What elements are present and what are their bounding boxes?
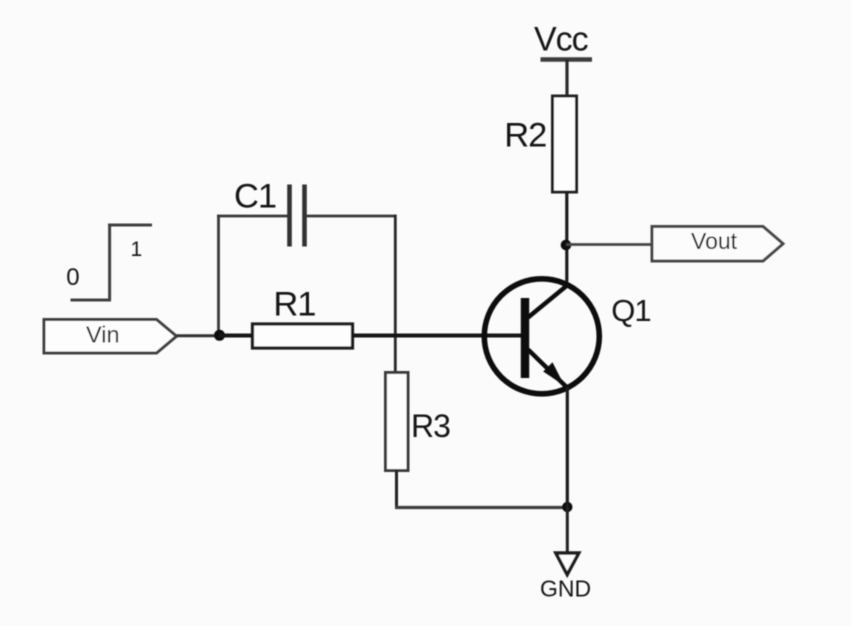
- wire capacitor loop top right: [306, 215, 396, 218]
- transistor Q1: [484, 279, 599, 394]
- svg-text:Q1: Q1: [611, 293, 650, 328]
- wire collector to Vout: [566, 243, 652, 246]
- capacitor C1 left plate: [287, 185, 292, 247]
- node input junction dot: [214, 330, 225, 341]
- ground symbol: [556, 553, 579, 575]
- node collector junction dot: [561, 240, 572, 251]
- wire R2 to collector: [565, 192, 568, 287]
- svg-text:Vin: Vin: [86, 322, 120, 348]
- step source symbol: [71, 225, 153, 300]
- wire capacitor loop right vertical down to R3: [394, 215, 397, 373]
- flag Vout: [652, 227, 783, 262]
- resistor R1: [253, 324, 353, 348]
- svg-text:1: 1: [131, 238, 143, 261]
- svg-text:R2: R2: [504, 116, 546, 154]
- node emitter junction dot: [562, 502, 572, 512]
- power rail Vcc bar: [541, 57, 593, 62]
- wire capacitor loop top left: [217, 215, 288, 218]
- wire Vin to node: [177, 334, 223, 337]
- resistor R3: [386, 373, 409, 471]
- capacitor C1 right plate: [302, 185, 307, 247]
- resistor R2: [553, 96, 577, 192]
- wire Vcc to R2: [565, 60, 568, 98]
- svg-text:C1: C1: [234, 177, 276, 215]
- svg-text:R1: R1: [273, 285, 315, 323]
- wire rail to ground: [566, 507, 569, 553]
- wire capacitor loop left vertical: [217, 215, 220, 335]
- wire R3 to bottom rail: [395, 471, 398, 510]
- wire emitter to rail: [566, 387, 569, 507]
- wire R1 to base: [353, 334, 522, 338]
- wire node to R1: [219, 334, 253, 338]
- wire bottom rail: [395, 506, 568, 509]
- flag Vin: [44, 320, 177, 354]
- svg-text:Vcc: Vcc: [534, 20, 589, 58]
- svg-text:R3: R3: [411, 408, 450, 444]
- svg-text:0: 0: [66, 264, 79, 291]
- svg-text:Vout: Vout: [691, 228, 738, 254]
- svg-text:GND: GND: [540, 576, 591, 602]
